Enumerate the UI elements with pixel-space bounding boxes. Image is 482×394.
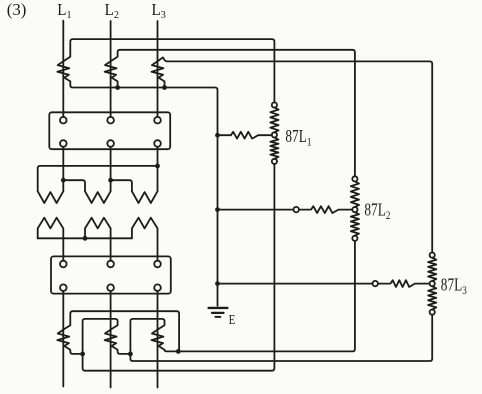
wire phase 2 box to delta winding (110, 147, 112, 192)
terminal bushing lower box bottom 1 (60, 284, 67, 291)
wire L1 phase vertical (top) (62, 21, 64, 117)
junction delta link at phase 2 (108, 178, 113, 183)
relay 87L3 bottom terminal (430, 310, 435, 315)
transformer delta winding B (85, 191, 111, 203)
relay 87L2 operating coil (351, 212, 359, 235)
terminal bushing upper box bottom 1 (60, 140, 67, 147)
CT6 secondary-side winding zigzag (152, 329, 164, 346)
transformer wye winding C (132, 218, 158, 261)
resistor R2 input terminal (294, 207, 299, 212)
svg-text:L2: L2 (105, 1, 119, 21)
terminal bushing upper box bottom 3 (154, 140, 161, 147)
relay 87L3 operating coil (428, 286, 436, 309)
ground symbol (209, 308, 228, 317)
wire relay 87L2 bottom to node N3 (178, 241, 355, 352)
terminal bushing upper box bottom 2 (107, 140, 114, 147)
svg-text:L3: L3 (152, 1, 166, 21)
terminal bushing lower box top 3 (154, 261, 161, 268)
svg-text:E: E (229, 312, 236, 328)
terminal bushing lower box bottom 3 (154, 284, 161, 291)
CT5 secondary-side winding zigzag (105, 329, 117, 346)
resistor R1 (231, 132, 272, 139)
CT1 primary-side secondary winding zigzag (57, 61, 69, 78)
wire relay 87L1 bottom to node N1 (83, 164, 275, 371)
CT4 secondary-side winding zigzag (57, 329, 69, 346)
wire phase 1 vertical (bottom feeder) (62, 291, 64, 387)
svg-text:(3): (3) (7, 0, 27, 19)
relay 87L1 bottom terminal (272, 159, 277, 164)
resistor R2 feed wire (218, 209, 294, 211)
ground bus junction at resistor R3 feed (215, 281, 220, 286)
resistor R3 feed wire (218, 283, 373, 285)
ground bus junction at resistor R1 feed (215, 133, 220, 138)
wire CT6 top tap to node N2 (130, 319, 164, 354)
relay 87L2 middle terminal (352, 207, 357, 212)
CT2 primary-side secondary winding zigzag (105, 61, 117, 78)
terminal bushing upper box top 2 (107, 117, 114, 124)
svg-text:87L2: 87L2 (364, 201, 390, 223)
wire CT4 top tap to node N3 (outer loop) (64, 311, 179, 351)
ground bus junction at resistor R2 feed (215, 207, 220, 212)
wire L3 phase vertical (top) (157, 21, 159, 117)
relay 87L3 top terminal (430, 253, 435, 258)
resistor R1 feed wire (218, 134, 231, 136)
terminal bushing lower box bottom 2 (107, 284, 114, 291)
breaker box (lower) (51, 256, 171, 293)
wire CT4 bottom tap to node N1 (64, 346, 82, 354)
wire CT3 bottom tap (159, 78, 165, 88)
wire wye neutral bus (38, 237, 132, 239)
junction CT2 tap on return bus (115, 85, 120, 90)
relay 87L3 middle terminal (430, 281, 435, 286)
transformer wye winding B (85, 218, 111, 261)
relay 87L2 bottom terminal (352, 236, 357, 241)
breaker box (upper) (49, 112, 170, 149)
transformer delta winding A (38, 191, 64, 203)
wire phase 3 vertical (bottom feeder) (157, 291, 159, 388)
junction wye neutral at winding B (83, 236, 88, 241)
svg-text:87L1: 87L1 (285, 127, 311, 149)
transformer wye winding A (38, 218, 64, 261)
relay 87L2 restraint coil (351, 182, 359, 207)
node N2 junction (128, 352, 133, 357)
wire CT6 bottom tap to node N3 (159, 346, 179, 351)
wire delta corner bus (phase3 to winding A start) (38, 166, 158, 191)
wire CT1 bottom tap + common return bus to ground (64, 78, 217, 306)
relay 87L1 operating coil (270, 138, 278, 159)
wire CT5 top tap to node N1 (83, 319, 118, 354)
relay 87L2 top terminal (352, 176, 357, 181)
wire phase 1 box to delta winding (62, 147, 64, 192)
wire CT3 top tap to relay 87L3 top (159, 57, 433, 252)
svg-text:87L3: 87L3 (441, 276, 467, 298)
terminal bushing lower box top 1 (60, 261, 67, 268)
wire phase 3 box to delta winding (157, 147, 159, 192)
wire relay 87L3 bottom to node N2 (130, 315, 432, 361)
junction CT3 tap on return bus (162, 85, 167, 90)
wire delta link phase2 to winding C (111, 180, 132, 191)
relay 87L1 restraint coil (270, 108, 278, 133)
terminal bushing upper box top 3 (154, 117, 161, 124)
resistor R3 (378, 280, 430, 287)
transformer delta winding C (132, 191, 158, 203)
node N1 junction (80, 352, 85, 357)
wire delta link phase1 to winding B (63, 180, 85, 191)
resistor R2 (299, 206, 352, 213)
relay 87L1 top terminal (272, 102, 277, 107)
wire CT2 bottom tap (112, 78, 118, 88)
junction delta bus at phase 3 (155, 164, 160, 169)
relay 87L1 middle terminal (272, 132, 277, 137)
wire phase 2 vertical (bottom feeder) (110, 291, 112, 388)
terminal bushing lower box top 2 (107, 261, 114, 268)
wire CT5 bottom tap to node N2 (112, 346, 131, 354)
terminal bushing upper box top 1 (60, 117, 67, 124)
svg-text:L1: L1 (57, 1, 71, 21)
wire L2 phase vertical (top) (110, 21, 112, 117)
junction delta link at phase 1 (61, 178, 66, 183)
wire CT2 top tap to relay 87L2 top (112, 50, 355, 177)
CT3 primary-side secondary winding zigzag (152, 61, 164, 78)
resistor R3 input terminal (373, 281, 378, 286)
node N3 junction (176, 349, 181, 354)
wire CT1 top tap to relay 87L1 top (64, 39, 274, 102)
relay 87L3 restraint coil (428, 258, 436, 281)
